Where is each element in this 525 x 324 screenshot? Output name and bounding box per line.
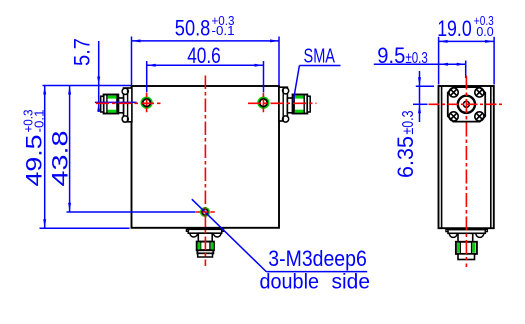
arrow 19.0 left — [439, 40, 448, 43]
svg-text:SMA: SMA — [304, 46, 336, 68]
dim 50.8 line — [132, 40, 280, 42]
left SMA connector J1 (side profile) — [101, 88, 132, 122]
side horizontal centerline — [429, 103, 504, 105]
front vertical centerline — [204, 76, 206, 267]
arrow 6.35 up (outside below) — [418, 104, 421, 113]
hole H1 vertical centerline — [146, 93, 148, 113]
flange tabs — [186, 229, 223, 231]
nut facet lines — [293, 95, 295, 113]
arrow 5.7 down (outside above) — [97, 77, 100, 86]
svg-text:19.0: 19.0 — [437, 16, 472, 41]
bottom edge extension line — [40, 227, 130, 229]
cap — [101, 96, 104, 112]
arrow 50.8 right — [270, 39, 279, 42]
svg-text:9.5: 9.5 — [377, 43, 405, 68]
hole H3 horizontal centerline — [196, 211, 215, 213]
svg-text:-0.1: -0.1 — [32, 110, 47, 133]
svg-text:-0.1: -0.1 — [212, 23, 235, 38]
svg-text:6.35: 6.35 — [393, 136, 418, 178]
nut facet lines — [459, 242, 461, 253]
arrow 49.5 top — [43, 86, 46, 95]
svg-text:5.7: 5.7 — [70, 38, 95, 66]
front horizontal centerline left segment — [96, 102, 164, 104]
side bottom connector green facets — [457, 243, 475, 253]
arrow 40.6 left — [147, 64, 156, 67]
nut facet lines — [106, 95, 108, 113]
flange plate — [279, 87, 287, 121]
flange plate — [188, 229, 221, 233]
svg-text:3-M3deep6: 3-M3deep6 — [268, 246, 367, 271]
neck — [287, 98, 292, 113]
bottom SMA connector J3 (front view) — [186, 229, 223, 257]
ear left — [190, 229, 198, 237]
front horizontal centerline right segment — [248, 102, 317, 104]
side vertical centerline — [465, 76, 467, 268]
svg-text:40.6: 40.6 — [187, 43, 221, 68]
dim 9.5 line with text leader — [374, 63, 466, 65]
neck — [198, 233, 212, 241]
right connector green facets — [295, 96, 304, 113]
nut body — [197, 242, 214, 251]
bottom SMA connector J4 (side view) — [446, 229, 488, 259]
left connector green facets — [108, 96, 117, 113]
centerline extension y102.6 — [95, 101, 137, 103]
svg-text:±0.3: ±0.3 — [405, 50, 427, 67]
svg-text:0.0: 0.0 — [476, 24, 493, 39]
svg-text:50.8: 50.8 — [175, 15, 211, 40]
dim 40.6 line — [147, 64, 264, 66]
dim 19.0 extension left — [438, 37, 440, 85]
dim 5.7 line — [98, 41, 100, 112]
arrow 43.8 top — [68, 86, 71, 95]
svg-text:double: double — [260, 271, 320, 294]
SMA underline — [299, 65, 340, 67]
arrow 49.5 bottom — [43, 219, 46, 228]
neck — [458, 233, 473, 242]
arrow 5.7 up (outside below) — [97, 103, 100, 112]
nut body — [456, 242, 477, 254]
nut body — [104, 95, 119, 114]
flange plate — [448, 230, 485, 234]
ear bottom — [283, 116, 289, 122]
svg-text:side: side — [332, 271, 371, 294]
SMA flange (side view face) — [448, 87, 485, 122]
screw hole S2 — [475, 88, 484, 97]
dim 9.5 center tick — [465, 61, 467, 79]
screw hole S4 — [475, 112, 484, 121]
hole centerline extension y212 — [67, 211, 196, 213]
nut body — [293, 95, 308, 114]
dim 49.5 line — [44, 86, 46, 229]
dim 6.35 tick bottom — [413, 103, 428, 105]
right SMA connector J2 (side profile) — [279, 87, 310, 122]
dim 6.35 line — [419, 71, 421, 122]
bottom connector green facets — [198, 243, 214, 250]
dim 19.0 line — [439, 40, 495, 42]
leader 3-M3 — [192, 199, 266, 271]
dim text 6.35±0.3 (rotated) — [393, 110, 418, 178]
ear right — [476, 229, 484, 237]
flange plate — [124, 88, 132, 122]
nut facet lines — [200, 242, 202, 250]
arrow 19.0 right — [485, 40, 494, 43]
ear top — [283, 88, 289, 94]
side plate line left — [441, 86, 443, 228]
side plate line right — [490, 86, 492, 228]
tip — [198, 253, 213, 257]
screw hole S1 — [449, 88, 458, 97]
blue arrowheads — [43, 39, 494, 228]
flange inner line — [282, 87, 284, 121]
screw hole S3 — [449, 112, 458, 121]
ear right — [213, 229, 221, 237]
ear top — [122, 88, 128, 94]
dim 43.8 line — [69, 86, 71, 212]
coax pin — [463, 101, 469, 107]
dim 50.8 extension right — [278, 37, 280, 86]
tapped hole H3 (center, 3-M3) — [201, 208, 209, 216]
arrow 40.6 right — [255, 64, 264, 67]
cap — [307, 96, 310, 112]
ear bottom — [122, 116, 128, 122]
cap — [197, 250, 213, 253]
arrow 43.8 bottom — [68, 203, 71, 212]
dim 40.6 extension right — [263, 61, 265, 92]
dim 50.8 extension left — [131, 37, 133, 86]
svg-text:43.8: 43.8 — [48, 131, 73, 187]
tip — [458, 254, 475, 260]
SMA leader — [293, 66, 299, 102]
flange tabs — [446, 230, 488, 232]
front view body outline — [132, 86, 280, 228]
svg-text:49.5: 49.5 — [22, 135, 47, 187]
mounting hole H2 (top-right) — [258, 97, 269, 108]
top edge extension line — [43, 85, 131, 87]
arrow 6.35 down (outside above) — [418, 77, 421, 86]
hole H2 vertical centerline — [262, 93, 264, 113]
flange inner line — [127, 88, 129, 122]
svg-text:±0.3: ±0.3 — [400, 110, 417, 134]
mounting hole H1 (top-left) — [141, 97, 152, 108]
ear left — [449, 229, 457, 237]
dim 40.6 extension left — [146, 61, 148, 92]
arrow 50.8 left — [132, 39, 141, 42]
coax outer ring — [458, 96, 475, 113]
dim text 49.5 (rotated) — [21, 110, 47, 187]
dim 6.35 tick top — [416, 85, 434, 87]
leader 3-M3 underline — [266, 271, 367, 273]
side view body outline — [439, 86, 494, 228]
arrow 9.5 left — [439, 63, 448, 66]
arrow 9.5 right — [457, 63, 466, 66]
neck — [118, 98, 123, 113]
dim 19.0 extension right — [493, 37, 495, 85]
